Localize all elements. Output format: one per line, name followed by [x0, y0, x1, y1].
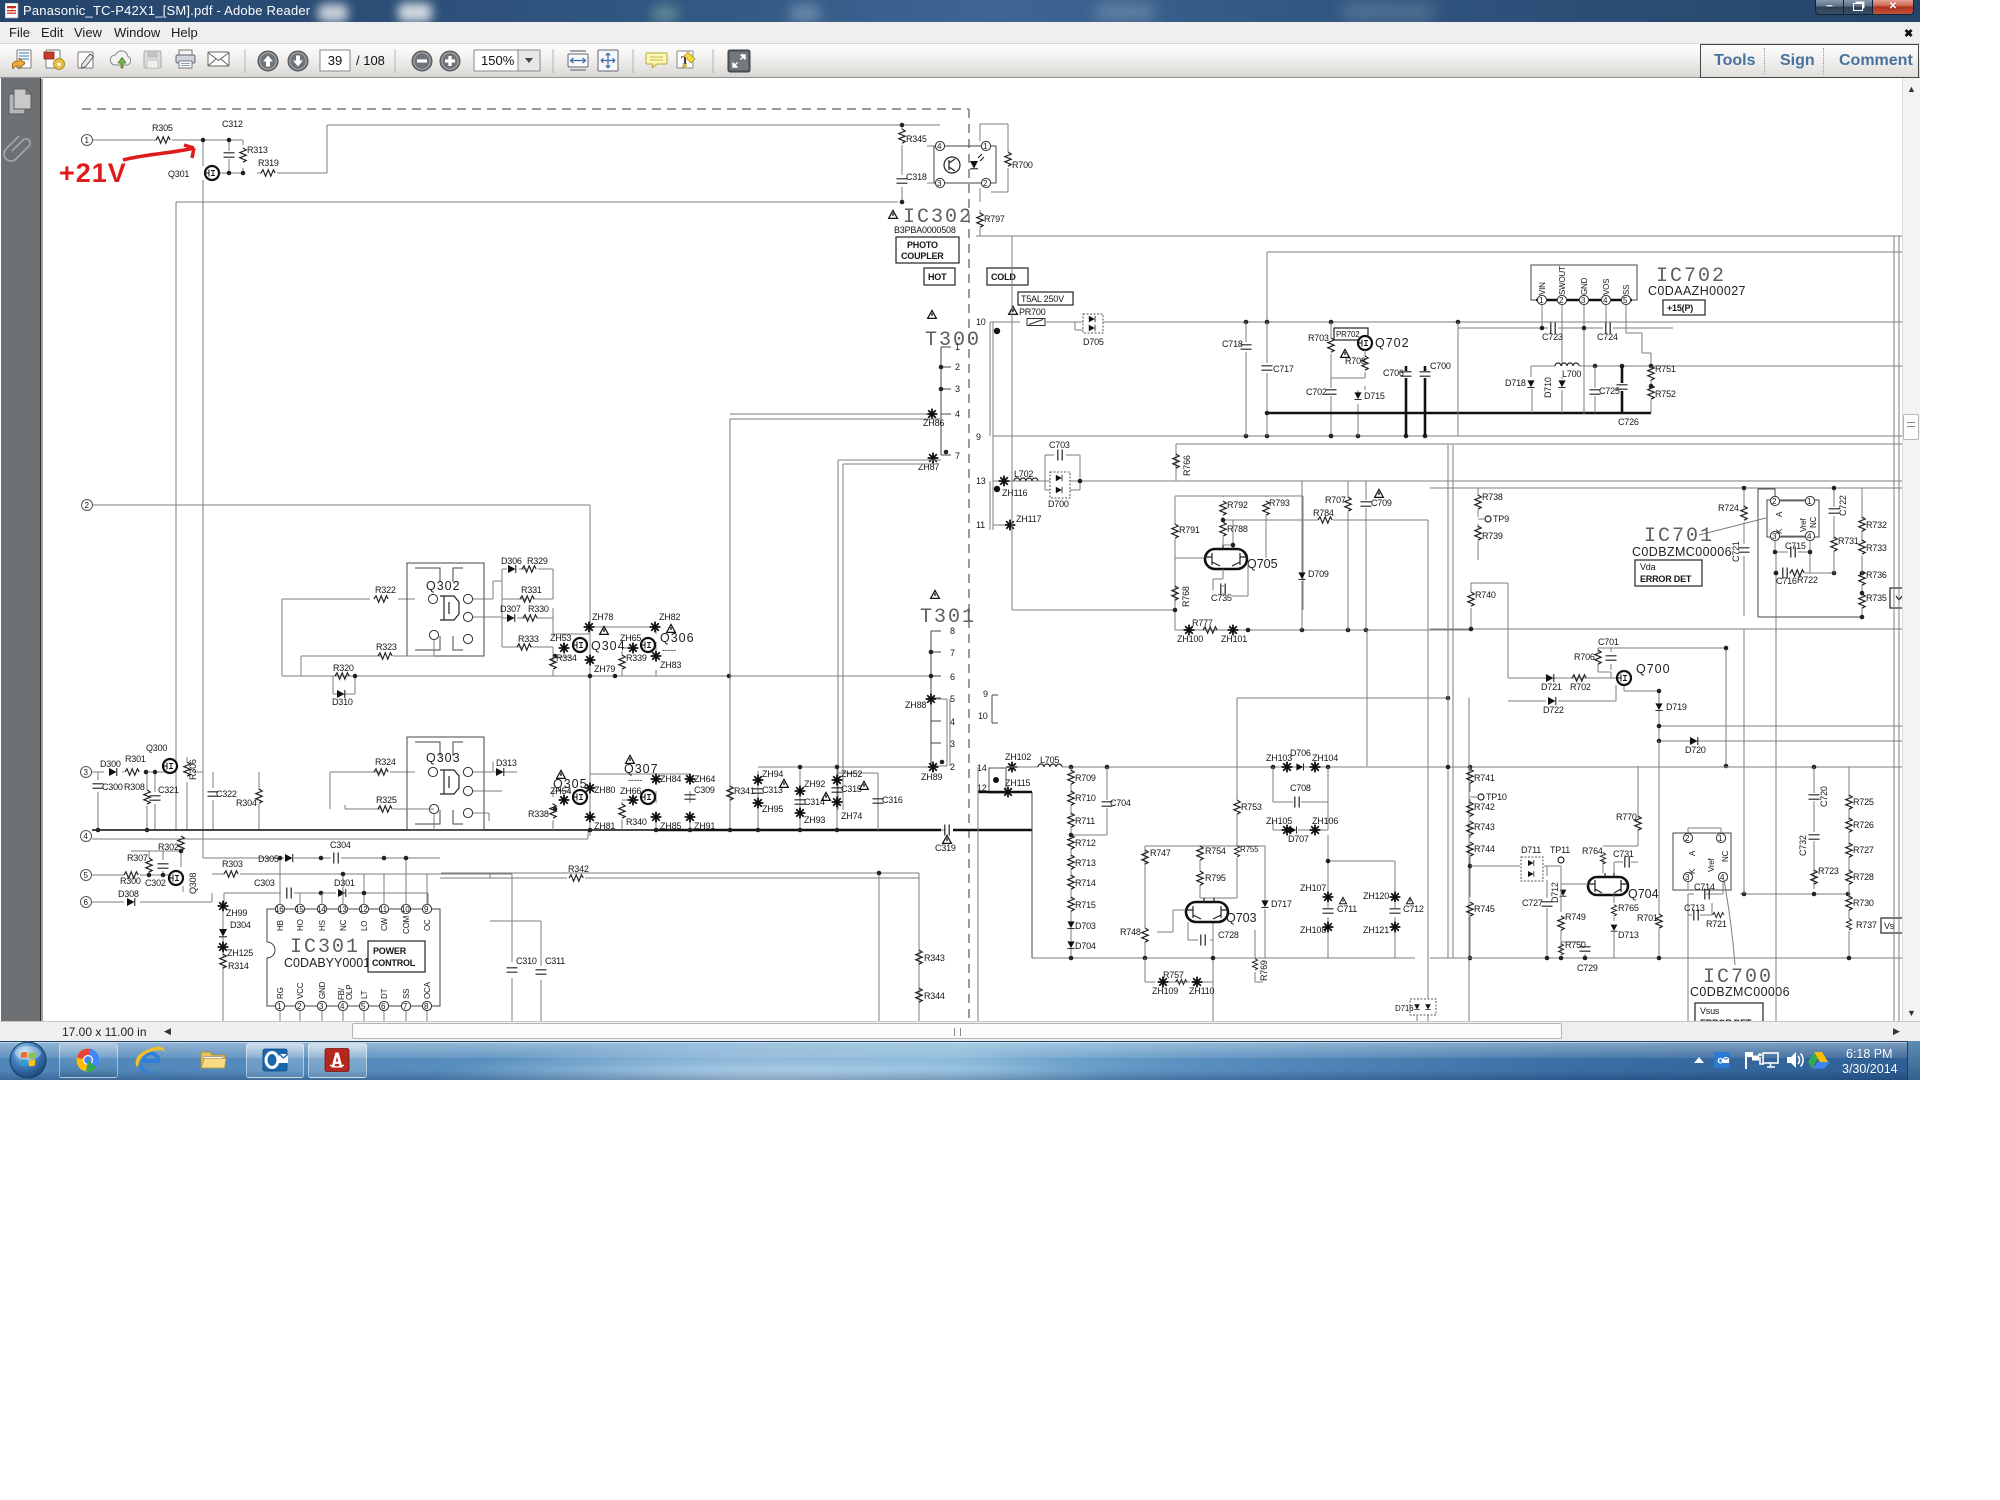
svg-text:D706: D706	[1290, 748, 1311, 758]
capacitor C303	[287, 888, 291, 899]
capacitor C714	[1705, 889, 1709, 900]
svg-text:C0DBZMC00006: C0DBZMC00006	[1632, 545, 1732, 559]
svg-text:R738: R738	[1482, 492, 1503, 502]
diode D709	[1301, 481, 1303, 630]
svg-text:R723: R723	[1818, 866, 1839, 876]
svg-text:Q702: Q702	[1375, 336, 1410, 350]
star ZH83	[651, 651, 662, 662]
Vda ERROR DET box	[1635, 560, 1702, 586]
diode D301	[338, 889, 346, 897]
svg-text:5: 5	[950, 694, 955, 704]
svg-text:R722: R722	[1797, 575, 1818, 585]
resistor R722	[1790, 570, 1804, 576]
zoom in	[440, 51, 460, 71]
svg-text:C713: C713	[1684, 903, 1705, 913]
resistor R342	[569, 875, 583, 881]
svg-text:ZH110: ZH110	[1189, 986, 1215, 996]
svg-text:ZH102: ZH102	[1005, 752, 1031, 762]
adobe reader	[325, 1049, 349, 1072]
next page	[288, 51, 308, 71]
svg-text:R701: R701	[1637, 913, 1658, 923]
resistor R307	[146, 858, 152, 872]
wire IC702 pin nets	[1458, 305, 1673, 436]
wire vertical x978	[977, 767, 979, 1021]
terminal 3	[81, 767, 92, 778]
resistor R744	[1467, 842, 1473, 856]
resistor R792	[1220, 501, 1226, 515]
svg-text:Q308: Q308	[188, 873, 198, 894]
resistor R313	[240, 148, 246, 162]
resistor R766	[1173, 454, 1179, 468]
star ZH82	[650, 622, 661, 633]
resistor chain R741..R745	[1470, 767, 1477, 958]
wire	[92, 886, 212, 902]
svg-text:R730: R730	[1853, 898, 1874, 908]
svg-text:ZH80: ZH80	[594, 785, 615, 795]
wire IC701 nets	[1699, 501, 1810, 573]
thick ground rail	[1267, 412, 1651, 415]
svg-text:R748: R748	[1120, 927, 1141, 937]
svg-text:D719: D719	[1666, 702, 1687, 712]
resistor R736	[1861, 573, 1863, 593]
capacitor C702	[1326, 390, 1337, 394]
T300 winding wires	[941, 347, 951, 455]
diode D715	[1354, 392, 1361, 399]
transistor Q702	[1358, 336, 1372, 350]
svg-text:R300: R300	[120, 876, 141, 886]
svg-text:C321: C321	[158, 785, 179, 795]
resistor R742	[1467, 802, 1473, 816]
svg-text:R323: R323	[376, 642, 397, 652]
tray flag	[1745, 1052, 1759, 1069]
svg-text:T5AL 250V: T5AL 250V	[1021, 294, 1064, 304]
resistor R338	[550, 804, 556, 818]
svg-text:R708: R708	[1345, 356, 1366, 366]
transistor Q705 (dual)	[1205, 549, 1247, 569]
svg-text:C725: C725	[1599, 386, 1620, 396]
svg-text:ZH120: ZH120	[1363, 891, 1389, 901]
fuse label box T5AL 250V	[1018, 292, 1073, 305]
capacitor C318	[897, 179, 908, 183]
capacitor C715	[1775, 551, 1810, 553]
resistor R703	[1330, 322, 1332, 436]
resistor R300	[124, 872, 138, 878]
svg-text:C304: C304	[330, 840, 351, 850]
svg-text:C728: C728	[1218, 930, 1239, 940]
capacitor C316	[873, 799, 884, 803]
svg-text:C709: C709	[1371, 498, 1392, 508]
svg-text:R303: R303	[222, 859, 243, 869]
resistor R738	[1477, 488, 1479, 560]
svg-text:C312: C312	[222, 119, 243, 129]
wire box rail	[1267, 252, 1902, 322]
svg-text:C318: C318	[906, 172, 927, 182]
diode D704	[1067, 941, 1074, 948]
svg-text:C309: C309	[694, 785, 715, 795]
svg-text:D717: D717	[1271, 899, 1292, 909]
capacitor C732	[1809, 835, 1820, 839]
svg-text:C716: C716	[1776, 576, 1797, 586]
svg-text:9: 9	[976, 432, 981, 442]
svg-text:10: 10	[401, 905, 410, 914]
dashed hot/cold border top	[82, 108, 969, 110]
svg-text:3: 3	[955, 384, 960, 394]
menu bar	[0, 22, 1920, 44]
wire T301 secondary row	[730, 767, 927, 830]
terminal 6	[81, 897, 92, 908]
svg-text:ZH94: ZH94	[762, 769, 783, 779]
terminal 2	[82, 500, 93, 511]
resistor R330	[523, 615, 537, 621]
inductor L705	[1038, 764, 1062, 767]
+15(P) box	[1663, 300, 1705, 315]
svg-text:C724: C724	[1597, 332, 1618, 342]
resistor R770	[1637, 766, 1639, 846]
Q303 internal transistor	[440, 770, 459, 794]
taskbar	[0, 1041, 1920, 1080]
resistor R304	[258, 772, 260, 830]
svg-text:D307: D307	[500, 604, 521, 614]
star ZH89	[928, 762, 939, 773]
svg-text:R709: R709	[1075, 773, 1096, 783]
svg-text:Q700: Q700	[1636, 662, 1671, 676]
wire coupler cold pins	[980, 124, 1008, 236]
svg-text:10: 10	[976, 317, 986, 327]
diode D705 dotted box	[1083, 314, 1103, 333]
resistor R323	[378, 653, 392, 659]
svg-text:C721: C721	[1731, 541, 1741, 562]
svg-text:ZH92: ZH92	[804, 779, 825, 789]
status row	[0, 1021, 1920, 1041]
svg-text:R797: R797	[984, 214, 1005, 224]
capacitor C722	[1833, 488, 1835, 520]
svg-text:R304: R304	[236, 798, 257, 808]
svg-text:R742: R742	[1474, 802, 1495, 812]
svg-text:7: 7	[950, 648, 955, 658]
transistor Q308	[169, 871, 183, 885]
diode D721	[1546, 674, 1554, 682]
svg-text:Q305: Q305	[553, 777, 588, 791]
svg-text:R735: R735	[1866, 593, 1887, 603]
capacitor C729	[1584, 942, 1586, 958]
wire R345/C318	[898, 125, 940, 202]
wire down to bottom rail	[1031, 792, 1033, 958]
svg-text:ZH117: ZH117	[1016, 514, 1042, 524]
svg-text:R308: R308	[124, 782, 145, 792]
resistor R728	[1846, 870, 1852, 884]
toolbar	[0, 44, 1920, 78]
wire L705 rail	[1006, 766, 1902, 768]
wire Q700 collector up	[1626, 648, 1726, 766]
svg-text:D711: D711	[1521, 845, 1541, 855]
star ZH91	[685, 812, 696, 823]
svg-text:R766: R766	[1182, 455, 1192, 476]
svg-text:D305: D305	[258, 854, 279, 864]
svg-text:R743: R743	[1474, 822, 1495, 832]
svg-text:A: A	[1688, 850, 1697, 856]
svg-text:D313: D313	[496, 758, 517, 768]
diode D700 dotted box	[1050, 472, 1070, 498]
svg-text:R769: R769	[1259, 960, 1269, 981]
svg-text:ZH78: ZH78	[592, 612, 613, 622]
resistor R325	[378, 806, 392, 812]
svg-text:R728: R728	[1853, 872, 1874, 882]
svg-text:R724: R724	[1718, 503, 1739, 513]
transistor Q300	[163, 759, 177, 773]
connector box	[989, 768, 1006, 793]
svg-text:D713: D713	[1618, 930, 1639, 940]
svg-text:HS: HS	[318, 920, 327, 931]
svg-text:C714: C714	[1694, 882, 1715, 892]
svg-text:ZH108: ZH108	[1300, 925, 1326, 935]
schematic frame left edge	[41, 79, 43, 1021]
capacitor C704	[1071, 767, 1107, 835]
resistor R727	[1846, 843, 1852, 857]
resistor R701	[1658, 741, 1660, 958]
svg-text:R341: R341	[734, 786, 755, 796]
svg-text:ZH99: ZH99	[226, 908, 247, 918]
warning	[600, 626, 609, 634]
svg-text:ZH121: ZH121	[1363, 925, 1389, 935]
svg-text:D707: D707	[1288, 834, 1309, 844]
svg-text:GND: GND	[1580, 277, 1589, 295]
svg-text:-----: -----	[662, 645, 676, 655]
capacitor C319 (bus series)	[941, 829, 945, 831]
page number box	[320, 50, 350, 71]
capacitor C706	[1405, 366, 1408, 436]
resistor R320	[335, 673, 349, 679]
sidebar	[0, 78, 41, 1021]
svg-text:R793: R793	[1269, 498, 1290, 508]
resistor R748	[1145, 910, 1185, 932]
svg-text:C700: C700	[1430, 361, 1451, 371]
svg-text:R753: R753	[1241, 802, 1262, 812]
svg-text:R344: R344	[924, 991, 945, 1001]
wire C303/D301 net	[224, 893, 428, 909]
svg-text:HOT: HOT	[928, 272, 947, 282]
svg-text:VCC: VCC	[296, 982, 305, 999]
svg-text:D712: D712	[1550, 882, 1560, 903]
diode D722	[1508, 685, 1616, 701]
resistor R707	[1347, 481, 1349, 630]
junction dots	[144, 770, 149, 775]
junction dots	[147, 873, 152, 878]
svg-text:R736: R736	[1866, 570, 1887, 580]
capacitor C712	[1390, 909, 1401, 913]
wire rails y726/741	[1659, 726, 1902, 741]
star ZH116	[999, 476, 1010, 487]
svg-text:C303: C303	[254, 878, 275, 888]
svg-text:D304: D304	[230, 920, 251, 930]
transistor Q302 box	[407, 563, 484, 656]
fuse PR702	[1334, 328, 1368, 340]
star ZH106	[1310, 825, 1321, 836]
star ZH84	[651, 774, 662, 785]
capacitor C300	[93, 784, 104, 788]
wire	[93, 125, 898, 173]
wire 13 rail	[993, 480, 1902, 482]
svg-text:C319: C319	[935, 843, 956, 853]
svg-text:R703: R703	[1308, 333, 1329, 343]
resistor R339	[619, 655, 625, 669]
winding double line	[937, 699, 950, 766]
svg-text:D703: D703	[1075, 921, 1096, 931]
warning	[626, 755, 635, 763]
capacitor C304	[334, 853, 338, 864]
save icon (disabled)	[144, 51, 161, 68]
star ZH94	[753, 775, 764, 786]
IC301 top pins	[275, 904, 432, 914]
svg-text:R329: R329	[527, 556, 548, 566]
diode D703	[1067, 921, 1074, 928]
print icon	[176, 50, 195, 68]
tray up arrow	[1694, 1057, 1704, 1063]
svg-text:C0DAAZH00027: C0DAAZH00027	[1648, 284, 1746, 298]
svg-text:6: 6	[950, 672, 955, 682]
svg-text:OLP: OLP	[345, 985, 354, 1000]
svg-text:R747: R747	[1150, 848, 1171, 858]
fit width icon	[568, 51, 588, 70]
terminal 4	[81, 831, 92, 842]
svg-text:Q703: Q703	[1226, 911, 1257, 925]
IE	[136, 1047, 165, 1074]
wire R342 net	[440, 874, 919, 921]
star ZH85	[651, 812, 662, 823]
svg-text:15: 15	[295, 905, 304, 914]
star ZH80	[585, 783, 596, 794]
Q302 internal transistor	[440, 596, 459, 620]
wire rail y444	[1176, 444, 1902, 481]
svg-text:C723: C723	[1542, 332, 1563, 342]
svg-text:C711: C711	[1337, 904, 1357, 914]
resistor R715	[1068, 897, 1074, 911]
chrome	[73, 1046, 102, 1076]
svg-text:ZH81: ZH81	[594, 821, 615, 831]
svg-text:R754: R754	[1205, 846, 1226, 856]
svg-text:R301: R301	[125, 754, 146, 764]
svg-text:C708: C708	[1290, 783, 1311, 793]
svg-text:DT: DT	[380, 988, 389, 999]
svg-text:D306: D306	[501, 556, 522, 566]
svg-text:D710: D710	[1543, 377, 1553, 398]
svg-text:ZH85: ZH85	[660, 821, 681, 831]
wire bottom rail y958	[1032, 957, 1415, 959]
resistor chain R709..R715	[1070, 767, 1072, 958]
svg-text:NC: NC	[339, 919, 348, 931]
capacitor C312	[224, 153, 235, 157]
capacitor C726	[1621, 366, 1624, 413]
warning	[667, 624, 676, 632]
title bar	[0, 0, 1920, 22]
svg-text:R707: R707	[1325, 495, 1346, 505]
diode D706	[1296, 763, 1303, 770]
resistor R755	[1234, 846, 1239, 857]
resistor R329	[522, 566, 536, 572]
resistor R753	[1236, 698, 1238, 846]
COLD box	[987, 268, 1028, 285]
svg-text:Q303: Q303	[426, 751, 461, 765]
wire lower return	[441, 873, 919, 1021]
sign pen icon	[78, 52, 94, 68]
transistor Q700	[1617, 671, 1631, 685]
IC701 pin block	[1767, 500, 1819, 537]
svg-text:R319: R319	[258, 158, 279, 168]
star ZH99	[218, 901, 229, 912]
svg-text:R741: R741	[1474, 773, 1495, 783]
svg-text:LO: LO	[360, 921, 369, 931]
svg-text:L702: L702	[1014, 469, 1033, 479]
svg-text:8: 8	[950, 626, 955, 636]
svg-text:Vs: Vs	[1884, 921, 1895, 931]
svg-text:C715: C715	[1785, 541, 1806, 551]
IC700 pin block	[1673, 833, 1731, 890]
transistor Q304	[573, 638, 587, 652]
svg-text:L700: L700	[1562, 369, 1581, 379]
transistor Q305	[573, 790, 587, 804]
svg-text:R750: R750	[1565, 940, 1586, 950]
svg-text:Q306: Q306	[660, 631, 695, 645]
resistor R795	[1197, 871, 1203, 885]
svg-text:LT: LT	[360, 990, 369, 999]
resistor R343	[916, 950, 922, 964]
star ZH105	[1282, 825, 1293, 836]
warning	[889, 210, 898, 218]
bus continues cold side	[656, 829, 941, 832]
svg-text:SS: SS	[1622, 285, 1631, 295]
resistor R791	[1172, 524, 1178, 538]
wire rail y629	[1430, 628, 1902, 630]
create pdf icon	[44, 50, 65, 70]
svg-text:C722: C722	[1838, 495, 1848, 516]
capacitor C716	[1776, 552, 1834, 958]
resistor R322	[374, 596, 388, 602]
warning	[557, 770, 566, 778]
star ZH120	[1390, 892, 1401, 903]
svg-text:VOS: VOS	[1602, 279, 1611, 295]
star ZH110	[1192, 977, 1203, 988]
svg-text:R739: R739	[1482, 531, 1503, 541]
svg-text:-----: -----	[628, 775, 642, 785]
resistor R700	[1005, 152, 1011, 166]
resistor R706	[1595, 650, 1601, 664]
svg-text:R700: R700	[1012, 160, 1033, 170]
capacitor C731	[1614, 862, 1638, 873]
svg-text:+15(P): +15(P)	[1667, 303, 1693, 313]
transistor Q306	[641, 638, 655, 652]
svg-text:ZH83: ZH83	[660, 660, 681, 670]
wire R324 net	[330, 772, 415, 809]
resistor R724	[1743, 488, 1745, 616]
svg-text:11: 11	[976, 520, 985, 530]
star ZH100	[1184, 625, 1195, 636]
svg-text:RG: RG	[276, 987, 285, 999]
svg-text:R737: R737	[1856, 920, 1877, 930]
svg-text:ZH109: ZH109	[1152, 986, 1178, 996]
svg-text:SS: SS	[402, 989, 411, 999]
diode D305	[285, 854, 293, 862]
wire node 2 to center	[93, 505, 590, 836]
svg-text:R795: R795	[1205, 873, 1226, 883]
resistor R723	[1811, 870, 1817, 884]
svg-text:R330: R330	[528, 604, 549, 614]
resistor R741	[1467, 769, 1473, 783]
wire Q303 pin4 net	[473, 762, 517, 821]
svg-text:R765: R765	[1618, 903, 1639, 913]
resistor column R725..R737	[1848, 767, 1850, 958]
svg-text:7: 7	[955, 451, 960, 461]
svg-text:2: 2	[955, 362, 960, 372]
resistor R726	[1846, 818, 1852, 832]
